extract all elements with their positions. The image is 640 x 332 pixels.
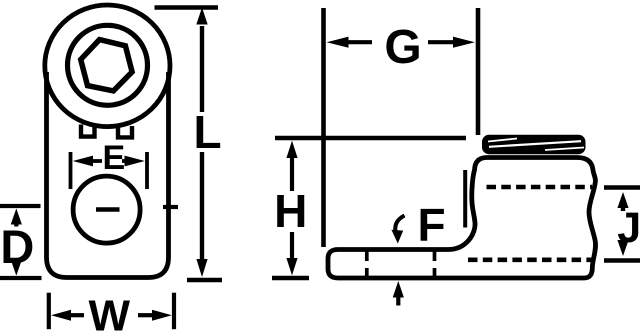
- bend tick pair 1: [365, 252, 369, 277]
- hidden hole dashed bottom: [468, 257, 592, 262]
- inner edge vertical line: [463, 170, 467, 228]
- svg-text:F: F: [417, 199, 445, 251]
- body outline: [47, 72, 169, 278]
- outer boss circle: [45, 5, 170, 127]
- hidden hole dashed top: [487, 185, 593, 190]
- lower screw circle: [73, 176, 140, 243]
- left clamp tab: [81, 125, 95, 137]
- svg-text:W: W: [89, 292, 131, 332]
- bend tick pair 2: [433, 252, 437, 277]
- dimension L: [155, 8, 223, 281]
- svg-text:G: G: [384, 21, 421, 74]
- dimension E: [71, 152, 148, 189]
- dimension D: [0, 206, 42, 278]
- dimension F bottom arrow: [393, 281, 404, 306]
- inner screw circle: [68, 25, 148, 105]
- dimension H: [272, 138, 466, 278]
- svg-text:L: L: [194, 106, 222, 158]
- svg-text:J: J: [617, 204, 640, 252]
- right clamp tab: [118, 126, 132, 138]
- svg-text:E: E: [102, 139, 125, 177]
- dimension J: [604, 188, 640, 261]
- hex socket: [81, 40, 132, 91]
- knurled cap: [482, 135, 586, 154]
- svg-text:H: H: [274, 185, 307, 237]
- screw slot: [96, 207, 120, 212]
- side tick on body right: [163, 205, 178, 209]
- dimension W: [49, 293, 174, 330]
- dimension G: [324, 8, 479, 247]
- svg-text:D: D: [0, 220, 34, 273]
- part outline: [328, 158, 596, 279]
- dimension F curved arrow: [391, 216, 404, 244]
